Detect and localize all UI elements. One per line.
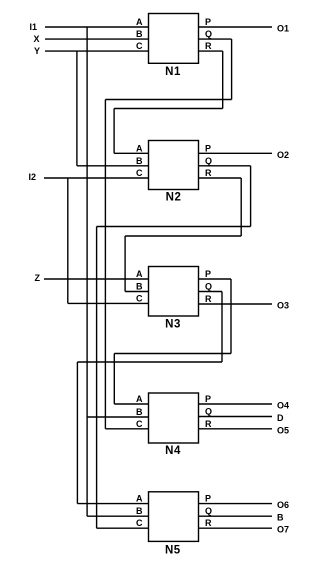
wire into N4.A: [114, 403, 148, 405]
wire N3.P vertical to N4.A: [113, 354, 115, 405]
wire N3.Q long vertical to N5.A: [76, 362, 78, 504]
wire N2.Q long vertical to N5.C: [96, 227, 98, 529]
svg-text:C: C: [136, 41, 143, 51]
svg-text:B: B: [136, 282, 143, 292]
svg-text:P: P: [205, 494, 211, 504]
svg-text:P: P: [205, 269, 211, 279]
svg-text:O2: O2: [277, 150, 289, 160]
svg-text:Q: Q: [205, 156, 212, 166]
wire N2.Q vertical right: [250, 166, 252, 227]
svg-text:A: A: [136, 269, 143, 279]
svg-text:B: B: [136, 156, 143, 166]
wire into N2.B: [77, 165, 149, 167]
wire N2.Q horizontal run: [97, 226, 251, 228]
wire N2.R vertical right: [240, 178, 242, 236]
svg-text:N4: N4: [165, 445, 181, 457]
svg-text:C: C: [136, 293, 143, 303]
svg-text:P: P: [205, 17, 211, 27]
wire N3.Q vertical right: [221, 292, 223, 363]
wire into N5.C: [97, 527, 149, 529]
wire N4.Q to D: [199, 416, 273, 418]
svg-text:O4: O4: [277, 401, 289, 411]
wire into N5.A: [77, 503, 148, 505]
wire X to N1.B: [45, 38, 149, 40]
wire N1.Q horizontal run: [105, 99, 231, 101]
svg-text:N2: N2: [166, 192, 182, 204]
wire into N4.C: [105, 428, 148, 430]
svg-text:C: C: [136, 419, 143, 429]
svg-text:I2: I2: [28, 172, 36, 182]
wire I2 branch vertical: [67, 178, 69, 303]
svg-text:A: A: [136, 17, 143, 27]
wire N1.R vertical to N2.A: [113, 109, 115, 154]
wire N3.P horizontal run: [114, 353, 231, 355]
svg-text:O1: O1: [277, 24, 289, 34]
wire I1 to N1.A: [45, 26, 149, 28]
wire N2.Q stub: [199, 165, 251, 167]
svg-text:Q: Q: [205, 407, 212, 417]
wire N1.R vertical right: [222, 51, 224, 108]
wire N4.R to O5: [199, 428, 273, 430]
wire N1.R horizontal run: [114, 108, 223, 110]
wire Y to N1.C: [45, 50, 149, 52]
svg-text:A: A: [136, 143, 143, 153]
wire into N3.C: [68, 302, 149, 304]
wire N1.Q vertical right: [231, 39, 233, 99]
wire into N2.A: [114, 152, 148, 154]
block N4 box: [149, 393, 199, 443]
svg-text:A: A: [136, 494, 143, 504]
svg-text:R: R: [205, 419, 212, 429]
wire N2.P to O2: [199, 152, 273, 154]
wire N3.R to O3: [199, 303, 273, 305]
wire N3.P vertical right: [230, 279, 232, 354]
svg-text:A: A: [136, 394, 143, 404]
svg-text:C: C: [136, 168, 143, 178]
svg-text:D: D: [277, 413, 284, 423]
wire N2.R vertical to N3.B: [124, 236, 126, 292]
wire I1 branch vertical: [86, 27, 88, 516]
wire N5.Q to B: [199, 515, 273, 517]
wire N2.R horizontal run: [125, 235, 241, 237]
wire N1.R stub: [199, 50, 223, 52]
wire N3.Q stub: [199, 291, 223, 293]
svg-text:B: B: [136, 29, 143, 39]
svg-text:B: B: [136, 407, 143, 417]
block N1 box: [149, 14, 199, 64]
wire N3.Q horizontal run: [77, 361, 222, 363]
block N3 box: [149, 267, 199, 317]
wire into N3.B: [125, 291, 148, 293]
svg-text:R: R: [205, 518, 212, 528]
wire Y branch vertical: [76, 51, 78, 166]
svg-text:Q: Q: [205, 282, 212, 292]
svg-text:P: P: [205, 394, 211, 404]
wire N4.P to O4: [199, 403, 273, 405]
svg-text:O5: O5: [277, 425, 289, 435]
svg-text:R: R: [205, 41, 212, 51]
svg-text:Z: Z: [35, 273, 41, 283]
svg-text:N3: N3: [165, 319, 181, 331]
svg-text:O6: O6: [277, 500, 289, 510]
svg-text:Q: Q: [205, 29, 212, 39]
block N2 box: [149, 141, 199, 190]
svg-text:Q: Q: [205, 506, 212, 516]
wire N5.R to O7: [199, 527, 273, 529]
wire N2.R stub: [199, 177, 242, 179]
wire N5.P to O6: [199, 503, 273, 505]
wire I2 to N2.C: [44, 177, 149, 179]
svg-text:O3: O3: [277, 301, 289, 311]
wire N3.P stub: [199, 278, 232, 280]
svg-text:X: X: [33, 34, 39, 44]
svg-text:B: B: [277, 513, 284, 523]
wire N1.Q long vertical to N4.C: [104, 100, 106, 429]
wire N1.Q stub: [199, 38, 232, 40]
svg-text:R: R: [205, 294, 212, 304]
wire N1.P to O1: [199, 26, 273, 28]
svg-text:Y: Y: [34, 46, 40, 56]
svg-text:O7: O7: [277, 525, 289, 535]
wire into N4.B: [87, 416, 148, 418]
svg-text:B: B: [136, 506, 143, 516]
wire Z to N3.A: [44, 278, 149, 280]
wire into N5.B: [87, 515, 148, 517]
svg-text:I1: I1: [29, 22, 37, 32]
svg-text:N1: N1: [165, 66, 181, 78]
block N5 box: [149, 492, 199, 542]
svg-text:C: C: [136, 518, 143, 528]
svg-text:P: P: [205, 143, 211, 153]
svg-text:R: R: [205, 168, 212, 178]
svg-text:N5: N5: [165, 544, 181, 556]
